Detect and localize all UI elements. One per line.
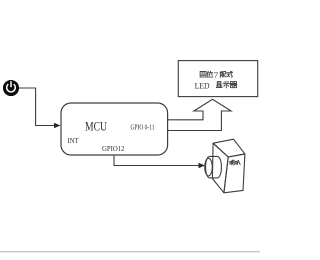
label line1: 四位7段式 (drawn glyphs) <box>200 71 232 77</box>
glyph 叭 <box>235 160 240 164</box>
glyph 位 <box>207 71 213 77</box>
speaker driver front cap <box>205 158 213 176</box>
power button icon <box>3 80 19 96</box>
right face <box>224 154 245 193</box>
svg-text:MCU: MCU <box>85 118 107 133</box>
block arrow from MCU GPIO 0-11 up into LED display <box>168 99 232 130</box>
glyph 喇 <box>230 160 234 165</box>
glyph 段 <box>220 71 226 77</box>
svg-text:GPIO 0-11: GPIO 0-11 <box>131 123 155 132</box>
svg-text:7: 7 <box>214 71 219 80</box>
front baffle panel <box>212 143 228 193</box>
wire from MCU GPIO12 to speaker <box>114 156 205 169</box>
svg-text:INT: INT <box>68 136 79 145</box>
top face <box>213 139 245 157</box>
glyph 四 <box>200 72 206 78</box>
bottom hairline <box>0 251 260 252</box>
wire from power button to MCU INT input <box>19 88 61 128</box>
MCU block U1 <box>61 103 168 155</box>
speaker driver cylinder body <box>206 156 222 178</box>
svg-text:GPIO12: GPIO12 <box>102 144 125 153</box>
LED display block <box>178 61 257 97</box>
glyph 示 <box>223 82 229 88</box>
glyph 式 <box>227 71 233 77</box>
glyph 器 <box>230 82 237 88</box>
speaker box (3D wireframe) <box>205 139 245 193</box>
svg-text:LED: LED <box>195 81 210 90</box>
glyph 显 <box>216 82 222 88</box>
label 喇叭 on speaker <box>230 160 240 165</box>
